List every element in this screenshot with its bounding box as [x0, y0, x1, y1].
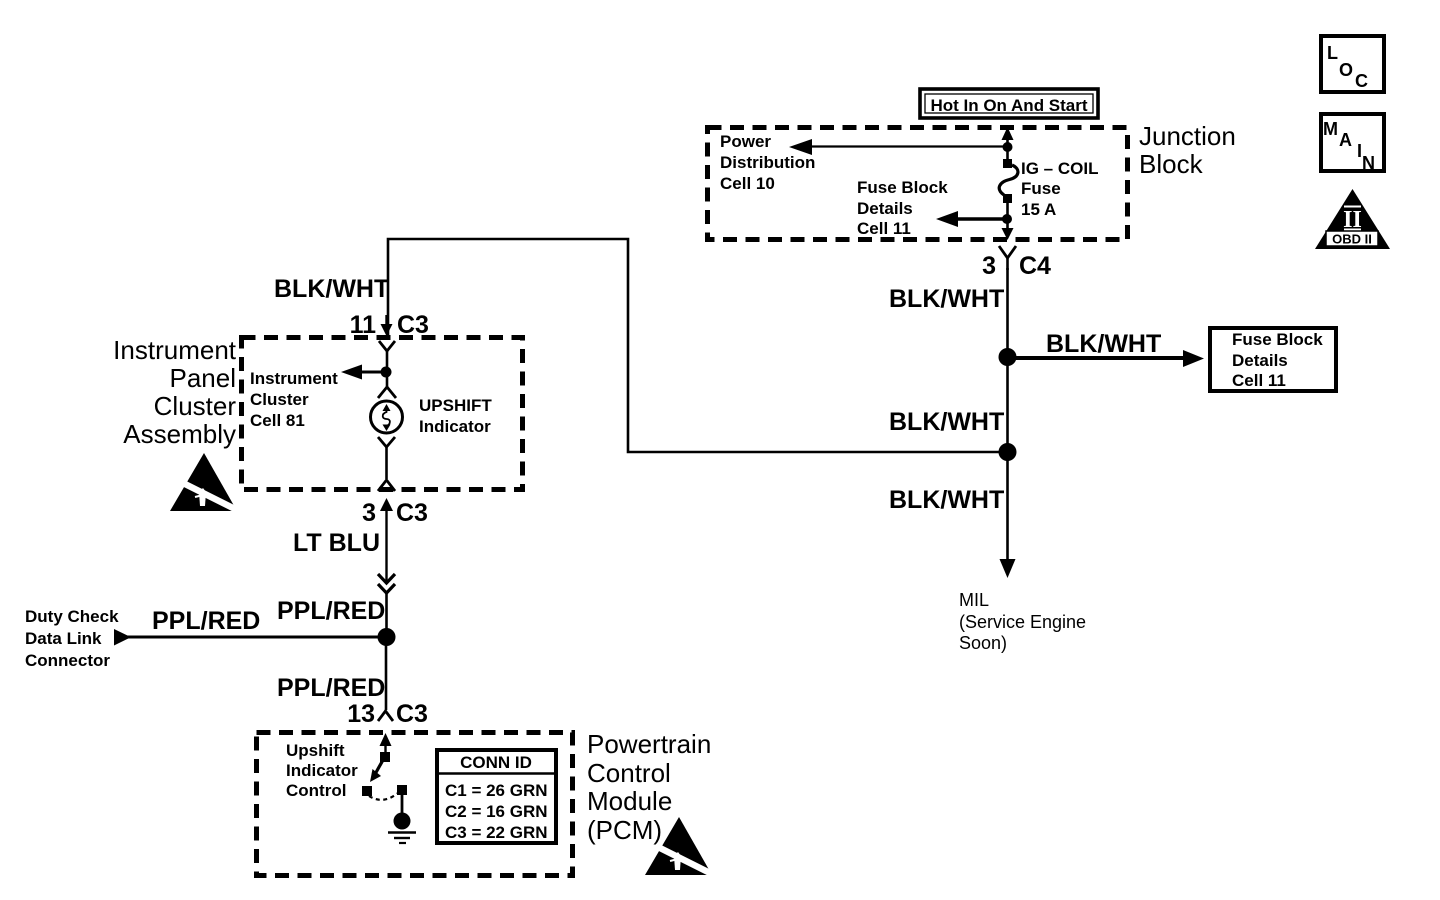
- svg-text:Soon): Soon): [959, 633, 1007, 653]
- svg-text:Control: Control: [587, 758, 671, 788]
- svg-text:UPSHIFT: UPSHIFT: [419, 396, 492, 415]
- svg-text:LT BLU: LT BLU: [293, 529, 380, 557]
- arrow into connector C3 pin 11: [381, 315, 393, 336]
- upshift indicator control driver: switch arm: [370, 760, 383, 782]
- svg-text:Connector: Connector: [25, 651, 110, 670]
- svg-text:BLK/WHT: BLK/WHT: [889, 285, 1004, 313]
- svg-text:A: A: [1339, 130, 1352, 150]
- node: branch to Instrument Cluster Cell 81: [381, 367, 392, 378]
- svg-text:PPL/RED: PPL/RED: [152, 607, 260, 635]
- svg-text:Details: Details: [857, 199, 913, 218]
- Power Distribution Cell 10 label: [720, 132, 815, 193]
- svg-text:BLK/WHT: BLK/WHT: [889, 486, 1004, 514]
- splice chevrons: [378, 574, 395, 593]
- svg-text:C: C: [1355, 71, 1368, 91]
- Junction Block label: [1139, 121, 1236, 179]
- svg-text:Details: Details: [1232, 351, 1288, 370]
- svg-text:C4: C4: [1019, 252, 1051, 280]
- svg-text:O: O: [1339, 60, 1353, 80]
- svg-text:Duty Check: Duty Check: [25, 607, 119, 626]
- connector fork at cluster pin 3: [378, 480, 395, 491]
- svg-text:Cluster: Cluster: [250, 390, 309, 409]
- svg-text:C3 = 22 GRN: C3 = 22 GRN: [445, 823, 548, 842]
- svg-text:11: 11: [350, 311, 377, 339]
- MIL (Service Engine Soon) label: [959, 590, 1086, 653]
- lamp upper terminal fork: [378, 387, 396, 398]
- Hot In On And Start feed box: [920, 89, 1098, 118]
- Fuse Block Details Cell 11 label (junction block): [857, 178, 948, 238]
- wire: BLK/WHT down to MIL: [1000, 452, 1016, 578]
- svg-text:Control: Control: [286, 781, 346, 800]
- svg-text:15 A: 15 A: [1021, 200, 1056, 219]
- svg-text:Junction: Junction: [1139, 121, 1236, 151]
- svg-text:3: 3: [982, 252, 996, 280]
- svg-text:C2 = 16 GRN: C2 = 16 GRN: [445, 802, 548, 821]
- svg-text:Panel: Panel: [170, 363, 237, 393]
- ground (PCM internal): [388, 795, 416, 843]
- wire: PPL/RED to Duty Check Data Link Connector: [126, 636, 386, 639]
- wire: BLK/WHT from C4 down: [1006, 268, 1009, 358]
- UPSHIFT Indicator label: [419, 396, 492, 436]
- svg-text:IG – COIL: IG – COIL: [1021, 159, 1098, 178]
- dashed link to ground terminal: [369, 793, 398, 800]
- svg-text:Fuse Block: Fuse Block: [857, 178, 948, 197]
- indicator lamp UPSHIFT: [371, 401, 403, 433]
- PCM dashed outline: [257, 733, 573, 876]
- svg-text:Instrument: Instrument: [250, 369, 338, 388]
- ESD sensitivity symbol (instrument cluster): [170, 453, 239, 511]
- svg-text:C1 = 26 GRN: C1 = 26 GRN: [445, 781, 548, 800]
- node: junction block feed junction: [1003, 142, 1013, 152]
- svg-text:Cell 11: Cell 11: [1232, 371, 1286, 390]
- Upshift Indicator Control label: [286, 741, 358, 800]
- lamp lower terminal fork: [378, 437, 395, 479]
- wire: PPL/RED down to PCM: [385, 637, 388, 710]
- svg-text:Data Link: Data Link: [25, 629, 102, 648]
- svg-text:BLK/WHT: BLK/WHT: [274, 275, 389, 303]
- instrument panel cluster dashed outline: [242, 338, 523, 490]
- connector C3 fork at PCM pin 13: [378, 711, 393, 721]
- Fuse Block Details Cell 11 box: [1210, 328, 1336, 391]
- OBD II symbol: [1315, 189, 1390, 249]
- svg-text:13: 13: [347, 700, 375, 728]
- svg-text:Instrument: Instrument: [113, 335, 237, 365]
- MAIN legend box: [1321, 114, 1384, 173]
- svg-text:Upshift: Upshift: [286, 741, 345, 760]
- svg-text:Assembly: Assembly: [123, 419, 236, 449]
- svg-text:Cell 81: Cell 81: [250, 411, 305, 430]
- junction block dashed outline: [708, 128, 1128, 240]
- svg-text:3: 3: [362, 499, 376, 527]
- svg-text:Block: Block: [1139, 149, 1204, 179]
- Instrument Cluster Cell 81 label: [250, 369, 338, 430]
- svg-text:Cell 11: Cell 11: [857, 219, 911, 238]
- upshift driver contact terminal: [362, 786, 372, 796]
- svg-text:OBD II: OBD II: [1332, 232, 1372, 247]
- svg-text:M: M: [1323, 119, 1338, 139]
- svg-text:(PCM): (PCM): [587, 815, 662, 845]
- wire: junction to lamp: [386, 372, 389, 387]
- svg-text:Module: Module: [587, 786, 672, 816]
- Instrument Panel Cluster Assembly label: [113, 335, 237, 449]
- svg-text:Hot In On And Start: Hot In On And Start: [930, 96, 1087, 115]
- arrow into Fuse Block Details box: [1183, 350, 1204, 367]
- ground terminal square: [397, 785, 407, 795]
- svg-text:Cell 10: Cell 10: [720, 174, 775, 193]
- node: splice to data link connector: [378, 628, 396, 646]
- Powertrain Control Module (PCM) label: [587, 729, 711, 845]
- node: fuse output junction: [1002, 214, 1012, 224]
- svg-text:MIL: MIL: [959, 590, 989, 610]
- node: splice to instrument cluster branch: [999, 443, 1017, 461]
- IG-COIL Fuse 15 A label: [1021, 159, 1098, 219]
- terminal triangle at data link connector end: [114, 629, 131, 646]
- connector C4 pin 3 fork: [999, 246, 1016, 270]
- fuse IG-COIL 15 A: [999, 147, 1018, 220]
- arrow to Fuse Block Details Cell 11: [936, 211, 958, 227]
- svg-text:Fuse: Fuse: [1021, 179, 1061, 198]
- wire: branch to Fuse Block Details Cell 11: [953, 217, 1007, 220]
- wire/arrow to Instrument Cluster Cell 81: [341, 365, 386, 380]
- ESD sensitivity symbol (PCM): [645, 817, 714, 875]
- wire: branch to Power Distribution Cell 10: [808, 145, 1006, 147]
- svg-text:C3: C3: [396, 700, 428, 728]
- svg-text:Powertrain: Powertrain: [587, 729, 711, 759]
- wire: BLK/WHT branch to Fuse Block Details box: [1007, 356, 1188, 360]
- svg-text:N: N: [1362, 153, 1375, 173]
- wire: fuse output exits junction block: [1002, 219, 1014, 240]
- svg-text:Fuse Block: Fuse Block: [1232, 330, 1323, 349]
- svg-text:Indicator: Indicator: [419, 417, 491, 436]
- svg-text:PPL/RED: PPL/RED: [277, 674, 385, 702]
- svg-text:BLK/WHT: BLK/WHT: [889, 408, 1004, 436]
- svg-text:CONN ID: CONN ID: [460, 753, 532, 772]
- svg-text:C3: C3: [396, 499, 428, 527]
- node: splice to fuse block details branch: [999, 348, 1017, 366]
- connector fork at cluster pin 11: [379, 341, 395, 372]
- svg-text:Indicator: Indicator: [286, 761, 358, 780]
- wire: feed from Hot In On And Start into junction block: [1002, 127, 1014, 148]
- wire: BLK/WHT feed across to instrument cluster: [388, 239, 1008, 452]
- LOC legend box: [1321, 36, 1384, 92]
- upshift indicator control driver: arrow to pin 13: [380, 733, 392, 762]
- svg-text:C3: C3: [397, 311, 429, 339]
- arrow to Power Distribution Cell 10: [789, 139, 812, 155]
- svg-text:Cluster: Cluster: [154, 391, 237, 421]
- svg-text:BLK/WHT: BLK/WHT: [1046, 330, 1161, 358]
- svg-text:PPL/RED: PPL/RED: [277, 597, 385, 625]
- svg-text:L: L: [1327, 43, 1338, 63]
- svg-text:(Service Engine: (Service Engine: [959, 612, 1086, 632]
- CONN ID table: [437, 750, 556, 843]
- svg-text:Power: Power: [720, 132, 771, 151]
- svg-text:Distribution: Distribution: [720, 153, 815, 172]
- wire: BLK/WHT between splices: [1006, 357, 1009, 452]
- Duty Check Data Link Connector label: [25, 607, 119, 670]
- arrow out of connector C3 pin 3 / wire LT BLU: [380, 498, 393, 584]
- wire: splice down to DLC junction: [385, 592, 388, 637]
